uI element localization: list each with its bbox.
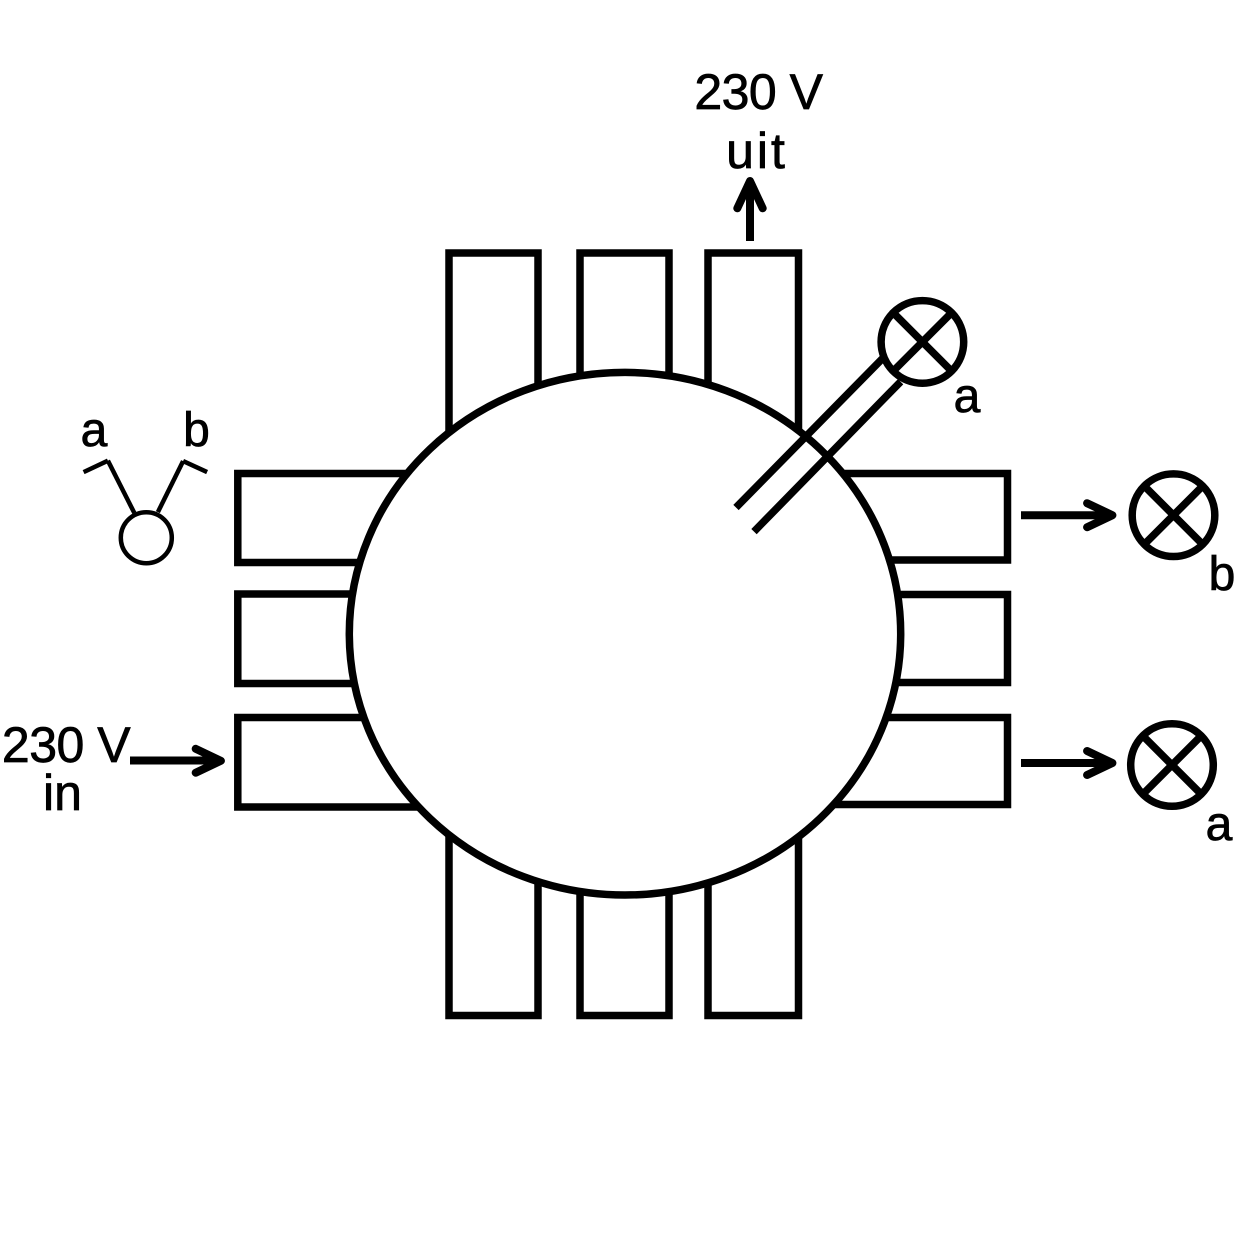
svg-text:230 V: 230 V: [694, 64, 823, 120]
conduit stub left-bottom: [238, 718, 440, 808]
lamp a (top right): [881, 301, 964, 384]
switch symbol: [84, 461, 208, 564]
svg-text:a: a: [954, 370, 981, 423]
conduit stub right-bottom: [820, 718, 1008, 805]
svg-text:uit: uit: [726, 123, 788, 179]
conduit stub bottom-left: [449, 820, 538, 1016]
svg-text:b: b: [1209, 548, 1236, 601]
conduit stub bottom-right: [708, 820, 799, 1016]
conduit stub top-left: [449, 253, 538, 450]
conduit stub top-middle: [580, 253, 669, 450]
lamp b (right): [1132, 474, 1215, 557]
arrow to lamp a (bottom right): [1021, 751, 1112, 775]
conduit stub top-right: [708, 253, 799, 450]
arrow 230 V uit: [737, 181, 762, 241]
conduit stub left-top: [238, 474, 440, 563]
conduit stub right-middle: [820, 595, 1008, 683]
svg-text:b: b: [183, 404, 210, 457]
junction box circle: [349, 372, 900, 895]
lamp a (bottom right): [1131, 724, 1214, 807]
pendant wire (double line) to lamp a: [736, 358, 883, 508]
conduit stub right-top: [820, 474, 1008, 561]
arrow 230 V in: [130, 749, 221, 773]
svg-text:a: a: [81, 404, 108, 457]
svg-text:in: in: [43, 765, 82, 821]
svg-text:a: a: [1206, 798, 1233, 851]
conduit stub bottom-middle: [580, 820, 669, 1016]
conduit stub left-middle: [238, 594, 440, 684]
arrow to lamp b: [1021, 503, 1112, 527]
